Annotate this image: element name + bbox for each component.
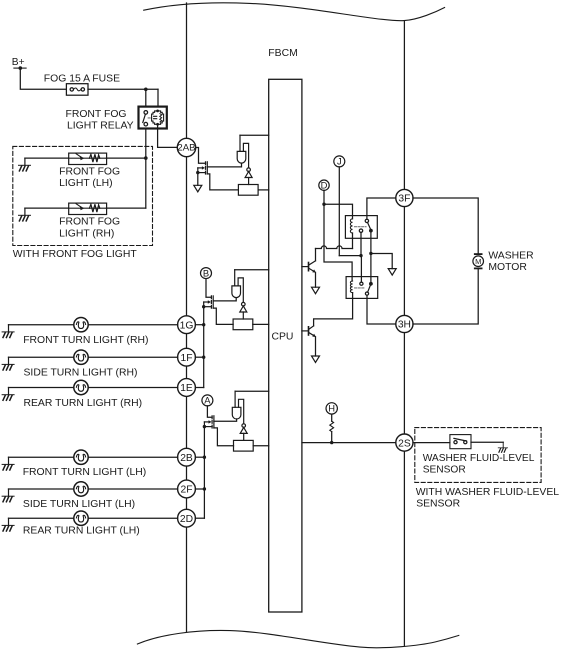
wire ground to fog lamp RH — [25, 207, 69, 209]
ground 1G row — [2, 325, 14, 338]
wire R3 to CPU — [253, 445, 269, 447]
wire source to resistor R2 — [213, 308, 233, 324]
dashed box WITH FRONT FOG LIGHT — [13, 146, 153, 245]
driver cluster 1: wire 2AB to mosfet — [196, 148, 206, 164]
wire 2B row — [9, 456, 178, 458]
wire 1E row — [9, 387, 178, 389]
lamp front turn LH — [74, 450, 88, 464]
svg-text:H: H — [328, 403, 335, 414]
svg-text:WITH WASHER FLUID-LEVEL: WITH WASHER FLUID-LEVEL — [416, 487, 560, 498]
svg-text:FRONT FOG: FRONT FOG — [59, 217, 120, 228]
lamp rear turn RH — [74, 380, 88, 394]
pin 2AB — [177, 138, 195, 156]
FBCM right boundary wire segments — [403, 21, 405, 646]
transistor Q4 — [302, 261, 316, 273]
svg-text:LIGHT (LH): LIGHT (LH) — [59, 178, 113, 189]
wire ground to fog lamp LH — [25, 157, 69, 159]
svg-text:REAR TURN LIGHT (RH): REAR TURN LIGHT (RH) — [24, 398, 143, 409]
wire gate link cluster 2 — [213, 298, 236, 301]
wire R2 to CPU — [253, 323, 269, 325]
wire J to relay contacts — [339, 255, 361, 257]
ground 1F row — [2, 357, 14, 370]
svg-text:2AB: 2AB — [177, 143, 195, 154]
pin 1E — [178, 379, 196, 397]
dashed box WITH WASHER FLUID-LEVEL SENSOR — [415, 428, 541, 483]
FBCM bottom break wave — [137, 630, 458, 647]
wire 2F row — [9, 488, 178, 490]
svg-text:FRONT FOG: FRONT FOG — [59, 167, 120, 178]
svg-text:LIGHT (RH): LIGHT (RH) — [59, 228, 114, 239]
svg-text:2F: 2F — [180, 485, 192, 496]
svg-text:CPU: CPU — [272, 332, 294, 343]
driver core 3 (coil, comparator, resistor R3) — [232, 391, 253, 451]
wire relay2 mid contact up to J — [360, 256, 362, 283]
svg-text:SENSOR: SENSOR — [416, 498, 460, 509]
fog lamp LH — [69, 153, 107, 164]
wire top rail cluster 3 — [235, 390, 269, 392]
wire R1 to CPU — [258, 189, 269, 191]
junction fog node — [144, 156, 148, 160]
svg-text:SIDE TURN LIGHT (LH): SIDE TURN LIGHT (LH) — [23, 499, 135, 510]
wire fog lamp LH to node — [106, 157, 145, 159]
svg-text:3F: 3F — [398, 194, 410, 205]
svg-text:1F: 1F — [180, 353, 192, 364]
wire D to relay 2 coil — [324, 204, 352, 281]
node B — [201, 268, 212, 279]
wire relay1 coil to transistor jog — [352, 233, 354, 249]
wire to ground arrow right — [371, 254, 392, 269]
junction 1G — [202, 323, 205, 326]
svg-text:A: A — [204, 395, 211, 406]
wire source to resistor R1 — [207, 174, 238, 190]
CPU box U1 — [269, 79, 302, 612]
fog lamp RH — [69, 203, 107, 214]
junction 1F — [202, 356, 205, 359]
svg-text:FRONT TURN LIGHT (LH): FRONT TURN LIGHT (LH) — [23, 467, 147, 478]
pin 2B — [178, 448, 196, 466]
svg-text:2B: 2B — [180, 453, 193, 464]
wire relay1 out contact down — [370, 231, 372, 284]
washer motor M1 — [473, 253, 484, 269]
wire CPU to 2S — [302, 442, 396, 444]
wire jog with hops — [316, 246, 353, 249]
svg-text:J: J — [337, 156, 342, 167]
junction J contact — [359, 254, 362, 257]
ground 1E row — [2, 388, 14, 401]
FBCM left boundary wire segments — [186, 3, 188, 632]
svg-text:FRONT TURN LIGHT (RH): FRONT TURN LIGHT (RH) — [23, 335, 148, 346]
ground arrow cluster 1 — [194, 185, 202, 192]
wire Q4 emitter to ground arrow — [315, 272, 317, 287]
ground 2F row — [2, 489, 14, 502]
ground fog LH — [19, 158, 31, 171]
svg-text:LIGHT RELAY: LIGHT RELAY — [67, 120, 134, 131]
wire Q3 source down to pins — [203, 427, 205, 519]
wire 2D row — [9, 517, 178, 519]
wire to relay coil — [157, 89, 159, 106]
node H — [326, 403, 337, 414]
resistor R4 — [330, 421, 334, 431]
lamp side turn RH — [74, 350, 88, 364]
junction H sensor line — [330, 441, 333, 444]
wire gate link cluster 3 — [214, 419, 237, 421]
wire D to relay 1 coil — [324, 204, 353, 219]
svg-text:3H: 3H — [398, 320, 411, 331]
pin 1G — [178, 316, 196, 334]
wire 2S to sensor switch — [413, 442, 450, 444]
wire washer motor to 3H — [413, 269, 478, 324]
wire fog node down — [145, 158, 147, 208]
wire 1E to node — [195, 387, 203, 389]
lamp side turn LH — [74, 482, 88, 496]
ground arrow Q5 — [312, 356, 320, 363]
washer relay 1 — [345, 216, 377, 239]
FBCM top break wave — [144, 3, 445, 21]
svg-text:FOG 15 A FUSE: FOG 15 A FUSE — [44, 74, 120, 85]
wire relay1 mid contact to J node — [360, 232, 362, 255]
svg-text:1E: 1E — [180, 383, 193, 394]
transistor Q5 — [302, 326, 316, 337]
wire 2F to node — [195, 488, 204, 490]
lamp front turn RH — [74, 318, 88, 332]
wire fuse to relay — [88, 88, 158, 90]
ground fog RH — [19, 208, 31, 221]
wire fog lamp RH to node — [106, 207, 145, 209]
wire 3F to washer motor — [413, 198, 478, 253]
wire sensor switch to ground — [471, 441, 503, 443]
wire relay2 coil to Q5 collector — [314, 293, 353, 326]
wire J down — [338, 167, 340, 256]
svg-text:B: B — [203, 267, 209, 278]
wire top rail cluster 1 — [240, 134, 269, 136]
svg-text:MOTOR: MOTOR — [488, 262, 527, 273]
wire relay switch to fog lights — [145, 129, 147, 159]
wire Q5 emitter to ground arrow — [315, 337, 317, 356]
svg-text:D: D — [321, 179, 328, 190]
pin 2D — [178, 509, 196, 527]
node A — [202, 395, 213, 406]
wire 1F to node — [195, 356, 203, 358]
svg-text:1G: 1G — [180, 320, 194, 331]
wire relay2 bottom contact to 3H — [367, 295, 396, 324]
wire 1G row — [9, 324, 178, 326]
pin 3H — [396, 315, 413, 332]
relay FRONT FOG LIGHT RELAY — [139, 107, 167, 129]
ground 2D row — [2, 518, 14, 531]
ground 2B row — [2, 457, 14, 470]
svg-text:REAR TURN LIGHT (LH): REAR TURN LIGHT (LH) — [23, 526, 140, 537]
ground arrow Q4 — [312, 287, 320, 294]
wire D down — [323, 190, 325, 204]
ground sensor — [498, 442, 507, 452]
wire 1F row — [9, 356, 178, 358]
svg-text:SENSOR: SENSOR — [423, 465, 466, 476]
wire A to mosfet Q3 — [207, 406, 212, 417]
svg-text:FRONT FOG: FRONT FOG — [66, 109, 127, 120]
wire B to mosfet Q2 — [206, 279, 211, 298]
lamp rear turn LH — [74, 511, 88, 525]
wire jog down to Q4 collector — [315, 249, 317, 261]
wire to relay switch — [145, 89, 147, 106]
wire 2D to node — [195, 517, 204, 519]
mosfet Q2 — [202, 296, 213, 309]
wire 2B to Q3 source — [195, 456, 204, 458]
svg-text:2D: 2D — [180, 514, 193, 525]
svg-text:SIDE TURN LIGHT (RH): SIDE TURN LIGHT (RH) — [24, 368, 138, 379]
svg-text:WASHER: WASHER — [488, 251, 534, 262]
wire gate link cluster 1 — [207, 163, 241, 167]
svg-text:WITH FRONT FOG LIGHT: WITH FRONT FOG LIGHT — [13, 249, 138, 260]
wire top rail cluster 2 — [235, 269, 269, 271]
wire Q1 source to ground arrow — [197, 173, 199, 186]
pin 3F — [396, 189, 413, 206]
fuse FOG 15 A — [66, 84, 88, 96]
driver core 2 (coil, comparator, resistor R2) — [232, 270, 253, 330]
wire H to resistor R4 — [331, 414, 333, 421]
wire 1G to Q2 source — [195, 324, 203, 326]
wire Q2 source down to pins — [203, 307, 205, 388]
svg-text:M: M — [475, 257, 481, 266]
washer fluid-level sensor switch — [450, 435, 471, 449]
junction fuse node — [144, 88, 148, 92]
wire source to resistor R3 — [214, 428, 234, 446]
pin 2F — [178, 480, 196, 498]
wire relay1 top contact to 3F — [367, 198, 396, 219]
wire R4 to sensor line — [331, 432, 333, 443]
svg-text:B+: B+ — [12, 57, 25, 68]
ground arrow washer — [388, 269, 396, 276]
pin 1F — [178, 348, 196, 366]
mosfet Q3 — [203, 416, 214, 429]
mosfet Q1 — [196, 162, 207, 175]
wire B+ to fuse — [20, 68, 66, 89]
junction D — [322, 203, 325, 206]
washer relay 2 — [346, 277, 378, 299]
svg-text:2S: 2S — [398, 438, 411, 449]
pin 2S — [396, 434, 413, 451]
svg-text:FBCM: FBCM — [268, 48, 297, 59]
node J — [334, 156, 345, 167]
junction out contact — [369, 252, 372, 255]
driver core 1 (coil, comparator, resistor R1) — [237, 135, 258, 195]
node D — [319, 180, 329, 190]
junction 2B — [203, 456, 206, 459]
battery terminal B+ — [14, 67, 26, 69]
svg-text:WASHER FLUID-LEVEL: WASHER FLUID-LEVEL — [423, 453, 535, 464]
wire relay coil to pin 2AB — [158, 124, 178, 147]
junction 2F — [203, 487, 206, 490]
